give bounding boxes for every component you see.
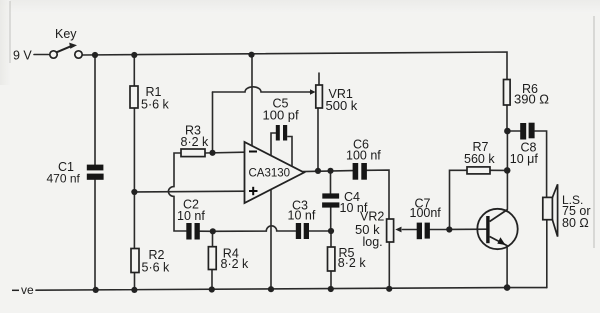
svg-text:8·2 k: 8·2 k <box>221 257 250 271</box>
wire non-inverting input row <box>135 190 245 193</box>
svg-text:80 Ω: 80 Ω <box>562 216 589 230</box>
wire R3 left branch with hop over + row <box>168 153 186 231</box>
resistor R4 <box>208 247 216 270</box>
junction rail / VR2 <box>386 286 392 292</box>
wire R4 top lead <box>212 231 214 246</box>
wire R6 bottom lead <box>506 105 508 131</box>
junction output / VR1 <box>315 168 321 174</box>
node 9V supply lead <box>34 54 49 56</box>
potentiometer VR2 <box>387 219 402 242</box>
junction top rail / op-amp supply <box>248 52 254 58</box>
junction emitter / rail <box>504 284 511 291</box>
wire op-amp pin4 drop to rail <box>270 189 272 289</box>
wire C4 top lead <box>330 171 332 194</box>
wire VR2 bottom lead <box>388 242 390 289</box>
transistor Q1 <box>477 209 517 249</box>
junction R7 / collector riser <box>504 167 511 174</box>
wire op-amp output row <box>303 171 353 172</box>
wire C4 bottom lead <box>330 208 332 232</box>
capacitor C4 <box>322 193 339 207</box>
svg-text:10 μf: 10 μf <box>510 152 539 166</box>
wire C2-C3 row with hop over pin4 drop <box>213 226 296 231</box>
wire VR1 wiper feed <box>310 91 312 93</box>
switch Key <box>50 43 82 59</box>
svg-text:CA3130: CA3130 <box>249 168 291 180</box>
junction R1-R2 divider / + input <box>131 189 137 195</box>
junction output / C4 <box>327 168 333 174</box>
wire VR2 wiper to C7 <box>403 229 418 231</box>
resistor R3 <box>181 149 205 157</box>
svg-text:9 V: 9 V <box>13 49 32 63</box>
wire R3 to inverting input <box>205 151 245 154</box>
junction rail / pin4 <box>268 286 274 292</box>
junction rail / R5 <box>328 286 334 292</box>
junction rail / C1 <box>93 287 99 293</box>
svg-text:100 pf: 100 pf <box>263 108 300 123</box>
loudspeaker LS <box>543 184 558 236</box>
capacitor C1 <box>87 165 104 180</box>
svg-text:10 nf: 10 nf <box>288 209 316 223</box>
wire C1 branch vertical <box>94 55 96 290</box>
wire R5 bottom lead <box>330 271 332 289</box>
wire R1 top lead <box>133 55 135 86</box>
svg-text:8·2 k: 8·2 k <box>338 256 367 270</box>
svg-text:5·6 k: 5·6 k <box>142 261 171 275</box>
junction rail / R2 <box>131 287 137 293</box>
svg-text:470 nf: 470 nf <box>47 172 81 186</box>
resistor R2 <box>131 249 139 273</box>
wire top rail <box>83 52 507 80</box>
svg-text:560 k: 560 k <box>464 152 495 166</box>
capacitor C7 <box>417 223 430 240</box>
wire R1 bottom to R2 top <box>133 108 135 249</box>
wire VR1 bottom lead <box>317 108 319 171</box>
wire feedback row with hop over supply drop <box>213 87 311 92</box>
wire collector riser <box>506 131 508 209</box>
wire feedback riser <box>212 92 214 153</box>
wire R4 bottom lead <box>211 270 213 290</box>
wire R7 right lead <box>490 169 507 171</box>
svg-text:8·2 k: 8·2 k <box>181 135 210 149</box>
wire R2 bottom lead <box>134 273 136 291</box>
wire C8 right lead down to speaker <box>535 131 547 197</box>
wire base lead <box>449 228 487 230</box>
junction rail / R4 <box>209 286 215 292</box>
junction C2 / R4 <box>210 228 216 234</box>
wire speaker bottom lead <box>546 220 548 288</box>
svg-text:ve: ve <box>21 283 34 297</box>
wire C6 right lead to VR2 <box>367 170 389 219</box>
junction R6 / C8 / collector <box>504 128 511 135</box>
wire C2 right lead <box>200 230 213 232</box>
capacitor C6 <box>353 163 367 180</box>
svg-text:100 nf: 100 nf <box>346 149 381 163</box>
capacitor C2 <box>186 223 200 240</box>
capacitor C8 <box>520 123 534 140</box>
wire C8 left lead <box>508 130 521 132</box>
svg-text:500 k: 500 k <box>326 98 358 113</box>
junction C7 / R7 / base <box>446 226 452 232</box>
junction C3 / C4 / R5 <box>328 228 334 234</box>
resistor R7 <box>467 167 490 174</box>
wire C7 right lead <box>430 229 449 231</box>
junction R3 / inverting input / feedback <box>209 150 215 156</box>
resistor R6 <box>504 80 511 106</box>
capacitor C5 <box>271 125 292 166</box>
svg-text:100nf: 100nf <box>410 206 442 220</box>
wire emitter drop <box>506 246 508 288</box>
wire VR1 top stub <box>318 73 320 85</box>
potentiometer VR1 <box>310 85 322 108</box>
label -ve <box>12 289 19 291</box>
op-amp U1 CA3130 <box>245 142 305 203</box>
svg-text:10 nf: 10 nf <box>177 209 205 223</box>
svg-text:390 Ω: 390 Ω <box>514 92 549 107</box>
svg-text:5·6 k: 5·6 k <box>141 98 170 112</box>
svg-text:Key: Key <box>55 27 77 41</box>
wire R5 top lead <box>330 231 332 247</box>
resistor R1 <box>130 86 138 108</box>
junction top rail / R1 <box>131 52 137 58</box>
wire bottom -ve rail <box>36 288 547 291</box>
junction top rail / C1 <box>92 52 98 58</box>
wire op-amp V+ supply drop <box>251 55 253 146</box>
wire R7 left branch <box>450 170 468 229</box>
resistor R5 <box>328 247 335 271</box>
wire C3 right lead <box>309 230 331 232</box>
svg-text:log.: log. <box>363 235 383 249</box>
capacitor C3 <box>296 223 309 239</box>
